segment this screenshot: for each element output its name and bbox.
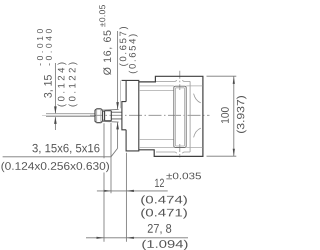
inner line under top hump [156,80,190,81]
pilot ext vertical line [120,81,122,109]
text tol +-0.035 [166,173,201,180]
internal horizontal lines top [139,86,203,91]
dim 27,8 ext line [103,123,105,242]
slot inner [175,88,184,146]
dim dia16,65 arrow upper [116,102,119,109]
dim 27,8 line [86,237,188,239]
dim 3,15 line [54,63,56,130]
centerline horizontal left part [42,114,90,116]
flange [122,80,139,150]
text key size inches [1,162,109,172]
dim 12 arrow right [126,190,133,192]
dim 100 ext lines [207,76,237,156]
text inch (1.094) [142,240,187,250]
dim dia16,65 line [117,31,119,148]
slot outer [174,86,186,147]
dim 27,8 arrow left [97,237,105,239]
dim 100 line [233,76,235,156]
text dim 27,8 value [148,224,171,234]
dim 12 arrow left [104,190,112,192]
dim 27,8 arrow right [126,237,133,239]
text dia 16,65 value [103,31,112,75]
pilot collar [122,102,126,130]
inner line over bottom hump [156,152,190,153]
dim 12 line [97,190,168,192]
text inch (0.124) [58,63,67,107]
shaft stub to flange [111,112,122,119]
text tol -0.010 [37,29,43,65]
dim dia16,65 arrow lower [116,122,119,129]
dim 3,15 arrow lower [54,117,57,124]
shaft key profile lines [46,114,95,117]
text inch (0.122) [69,63,78,107]
body outline [139,76,203,156]
text inch (0.471) [141,208,187,218]
key label leader line [3,148,118,157]
text inch (0.474) [141,195,187,205]
text tol -0.040 [46,29,52,65]
centerline horizontal [90,114,210,116]
dim 100 arrow top [233,76,235,84]
dim 12 ext lines [111,123,126,242]
dim dia16,65 ext lines [101,109,119,122]
centerline vertical slot top [179,71,181,90]
key block [95,109,103,123]
text dim 12 value [155,179,164,187]
hub cylinder [105,111,112,121]
dim 100 arrow bottom [233,149,235,157]
internal horizontal lines bottom [139,140,203,148]
hub neck [103,111,105,120]
text inch (0.654) [129,34,138,73]
cap fillet arcs [194,94,201,138]
text dim 100 value [221,107,229,123]
text tol +-0.05 [99,5,105,27]
centerline vertical slot bottom [179,144,181,158]
text inch (0.657) [119,27,128,66]
key block inner edges [97,109,101,123]
text inch (3.937) [237,96,247,133]
cap joint vertical [189,81,191,152]
text dim 3,15 value [44,75,53,98]
dim 3,15 arrow upper [54,106,57,113]
text key size 3,15x6,5x16 [32,144,99,154]
